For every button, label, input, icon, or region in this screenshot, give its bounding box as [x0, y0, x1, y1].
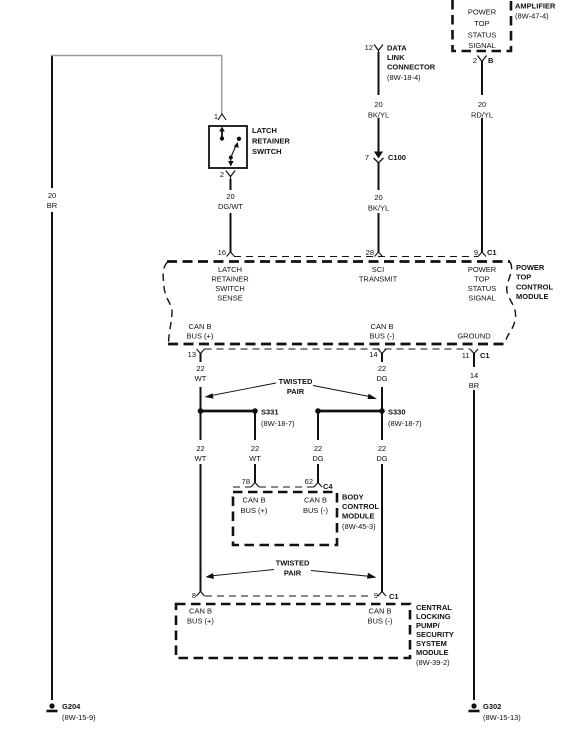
node pin 2 fork (amplifier) [478, 56, 487, 65]
svg-text:2: 2 [473, 56, 477, 65]
svg-text:BUS (+): BUS (+) [241, 506, 268, 515]
body control module box [233, 492, 337, 545]
svg-text:RD/YL: RD/YL [471, 111, 493, 120]
node pin 78 fork [251, 483, 259, 488]
power top control module right wavy edge [506, 262, 516, 343]
wire DG splice S330 to BCM pin 62 [317, 411, 319, 483]
svg-text:SCI: SCI [372, 265, 385, 274]
svg-text:20: 20 [48, 191, 56, 200]
twisted pair upper left arrow [205, 383, 277, 399]
power top control module left wavy edge [163, 262, 172, 343]
svg-text:G204: G204 [62, 702, 81, 711]
svg-text:WT: WT [195, 374, 207, 383]
wire WT pin 13 to splice S331 [200, 353, 202, 409]
ground G302 symbol [469, 703, 480, 711]
switch movable contact blade [228, 142, 239, 167]
svg-text:WT: WT [195, 454, 207, 463]
wire WT splice S331 to BCM pin 78 [254, 411, 256, 483]
splice S331 [198, 408, 258, 414]
svg-text:BK/YL: BK/YL [368, 204, 389, 213]
svg-text:POWER: POWER [468, 265, 497, 274]
svg-text:LINK: LINK [387, 53, 405, 62]
svg-text:STATUS: STATUS [468, 31, 496, 40]
wire thin gray from BR wire to latch retainer switch pin 1 [51, 56, 222, 115]
svg-text:LATCH: LATCH [252, 126, 277, 135]
svg-text:MODULE: MODULE [342, 512, 375, 521]
svg-text:22: 22 [378, 444, 386, 453]
svg-text:RETAINER: RETAINER [252, 137, 290, 146]
svg-text:9: 9 [374, 591, 378, 600]
wire DG/WT switch to module pin 16 [230, 179, 232, 252]
svg-text:BODY: BODY [342, 493, 364, 502]
node pin 11 fork [470, 349, 478, 356]
svg-text:POWER: POWER [516, 263, 545, 272]
node pin 8 fork [197, 592, 205, 597]
node pin 2 fork (latch retainer switch) [226, 171, 235, 181]
svg-text:POWER: POWER [468, 8, 497, 17]
switch contact arrow up [219, 127, 225, 141]
node pin 28 fork [375, 252, 383, 257]
twisted pair upper right arrow [313, 386, 377, 400]
svg-text:14: 14 [470, 371, 478, 380]
node pin 13 fork [197, 349, 205, 356]
ground G204 symbol [47, 703, 58, 711]
svg-text:8: 8 [192, 591, 196, 600]
svg-text:78: 78 [242, 477, 250, 486]
svg-text:LOCKING: LOCKING [416, 612, 451, 621]
svg-text:BUS (-): BUS (-) [368, 617, 394, 626]
node pin 16 fork [227, 252, 235, 257]
svg-text:(8W-45-3): (8W-45-3) [342, 522, 376, 531]
wire BK/YL data link connector to C100 [378, 52, 380, 155]
svg-text:CONNECTOR: CONNECTOR [387, 63, 436, 72]
svg-text:SIGNAL: SIGNAL [468, 294, 496, 303]
svg-text:B: B [488, 56, 494, 65]
svg-text:S331: S331 [261, 408, 279, 417]
svg-text:TOP: TOP [474, 19, 489, 28]
svg-text:DG: DG [312, 454, 323, 463]
connector C100 inline symbol [374, 152, 384, 163]
svg-text:(8W-15-13): (8W-15-13) [483, 713, 521, 722]
svg-text:CAN B: CAN B [304, 496, 327, 505]
svg-text:CAN B: CAN B [243, 496, 266, 505]
wire BR pin 11 to ground G302 [473, 353, 475, 700]
svg-text:PAIR: PAIR [284, 569, 302, 578]
wire RD/YL amplifier to module pin 9 [481, 62, 483, 253]
svg-text:20: 20 [374, 100, 382, 109]
svg-text:LATCH: LATCH [218, 265, 242, 274]
svg-text:62: 62 [305, 477, 313, 486]
svg-text:BUS (+): BUS (+) [187, 332, 214, 341]
svg-text:14: 14 [369, 350, 377, 359]
node pin 1 fork (latch retainer switch) [218, 114, 226, 120]
svg-text:20: 20 [374, 193, 382, 202]
node pin 9 fork (CLPS) [378, 592, 386, 597]
svg-text:2: 2 [220, 170, 224, 179]
svg-text:SECURITY: SECURITY [416, 630, 454, 639]
svg-text:22: 22 [196, 444, 204, 453]
svg-text:SIGNAL: SIGNAL [468, 41, 496, 50]
svg-text:C1: C1 [480, 351, 490, 360]
node pin 9 fork [478, 252, 486, 257]
wire BK/YL C100 to module pin 28 [378, 163, 380, 252]
svg-text:GROUND: GROUND [457, 332, 491, 341]
svg-text:SWITCH: SWITCH [252, 147, 282, 156]
central locking pump security system module box [176, 604, 410, 658]
svg-text:22: 22 [378, 364, 386, 373]
svg-text:DATA: DATA [387, 44, 407, 53]
svg-text:TRANSMIT: TRANSMIT [359, 275, 398, 284]
svg-text:1: 1 [214, 112, 218, 121]
svg-text:9: 9 [474, 248, 478, 257]
svg-text:DG: DG [376, 374, 387, 383]
connector C4 dashed line [233, 486, 314, 488]
svg-text:20: 20 [478, 100, 486, 109]
svg-text:SWITCH: SWITCH [215, 284, 245, 293]
svg-text:(8W-15-9): (8W-15-9) [62, 713, 96, 722]
svg-text:22: 22 [314, 444, 322, 453]
svg-text:G302: G302 [483, 702, 501, 711]
latch retainer switch box [209, 126, 247, 168]
svg-text:CAN B: CAN B [369, 607, 392, 616]
wire WT splice S331 to CLPS module pin 8 [200, 411, 202, 592]
svg-text:BR: BR [47, 201, 58, 210]
svg-text:22: 22 [196, 364, 204, 373]
connector C1 dashed line (CLPS) [205, 595, 369, 597]
wire BR left vertical [51, 56, 53, 700]
svg-text:C4: C4 [323, 482, 333, 491]
svg-text:BR: BR [469, 381, 480, 390]
svg-text:CAN B: CAN B [189, 322, 212, 331]
svg-text:13: 13 [188, 350, 196, 359]
svg-text:CONTROL: CONTROL [516, 282, 553, 291]
svg-text:28: 28 [366, 248, 374, 257]
svg-text:BUS (-): BUS (-) [370, 332, 396, 341]
svg-text:DG/WT: DG/WT [218, 202, 243, 211]
svg-text:C1: C1 [389, 592, 399, 601]
svg-text:BUS (+): BUS (+) [187, 617, 214, 626]
wire DG splice S330 to CLPS module pin 9 [381, 411, 383, 592]
connector C1 top dashed line [234, 256, 478, 258]
svg-text:(8W-18-7): (8W-18-7) [388, 419, 422, 428]
svg-text:(8W-18-7): (8W-18-7) [261, 419, 295, 428]
node pin 12 fork (data link connector) [374, 45, 383, 54]
svg-text:12: 12 [365, 43, 373, 52]
svg-text:DG: DG [376, 454, 387, 463]
switch fixed contact dot [237, 137, 241, 141]
svg-text:11: 11 [462, 351, 470, 360]
svg-text:(8W-47-4): (8W-47-4) [515, 12, 549, 21]
node pin 14 fork [378, 349, 386, 356]
wire DG pin 14 to splice S330 [381, 353, 383, 409]
svg-text:TOP: TOP [516, 273, 531, 282]
svg-text:MODULE: MODULE [416, 648, 449, 657]
svg-text:CONTROL: CONTROL [342, 502, 379, 511]
svg-text:C100: C100 [388, 153, 406, 162]
svg-text:PUMP/: PUMP/ [416, 621, 441, 630]
svg-text:BK/YL: BK/YL [368, 111, 389, 120]
svg-text:CENTRAL: CENTRAL [416, 603, 452, 612]
svg-text:TOP: TOP [474, 275, 489, 284]
svg-text:7: 7 [365, 153, 369, 162]
svg-text:SYSTEM: SYSTEM [416, 639, 447, 648]
svg-text:(8W-18-4): (8W-18-4) [387, 73, 421, 82]
svg-text:RETAINER: RETAINER [211, 275, 249, 284]
twisted pair lower right arrow [311, 571, 377, 579]
svg-text:TWISTED: TWISTED [279, 377, 313, 386]
power top control module box bottom edge [168, 343, 505, 346]
svg-text:22: 22 [251, 444, 259, 453]
svg-text:S330: S330 [388, 408, 406, 417]
svg-text:BUS (-): BUS (-) [303, 506, 329, 515]
splice S330 [315, 408, 385, 414]
twisted pair lower left arrow [206, 570, 275, 580]
svg-text:STATUS: STATUS [468, 284, 496, 293]
svg-text:CAN B: CAN B [371, 322, 394, 331]
svg-text:C1: C1 [487, 248, 497, 257]
node pin 62 fork [314, 483, 322, 488]
svg-text:SENSE: SENSE [217, 294, 242, 303]
svg-text:20: 20 [226, 192, 234, 201]
connector C1 bottom dashed line [205, 348, 471, 350]
power top control module box top edge [167, 260, 510, 263]
svg-text:WT: WT [249, 454, 261, 463]
svg-text:TWISTED: TWISTED [276, 559, 310, 568]
svg-text:(8W-39-2): (8W-39-2) [416, 658, 450, 667]
amplifier box (dashed, cut at top) [453, 0, 512, 51]
svg-text:CAN B: CAN B [189, 607, 212, 616]
svg-text:16: 16 [218, 248, 226, 257]
svg-text:AMPLIFIER: AMPLIFIER [515, 2, 556, 11]
svg-text:MODULE: MODULE [516, 292, 549, 301]
svg-text:PAIR: PAIR [287, 387, 305, 396]
